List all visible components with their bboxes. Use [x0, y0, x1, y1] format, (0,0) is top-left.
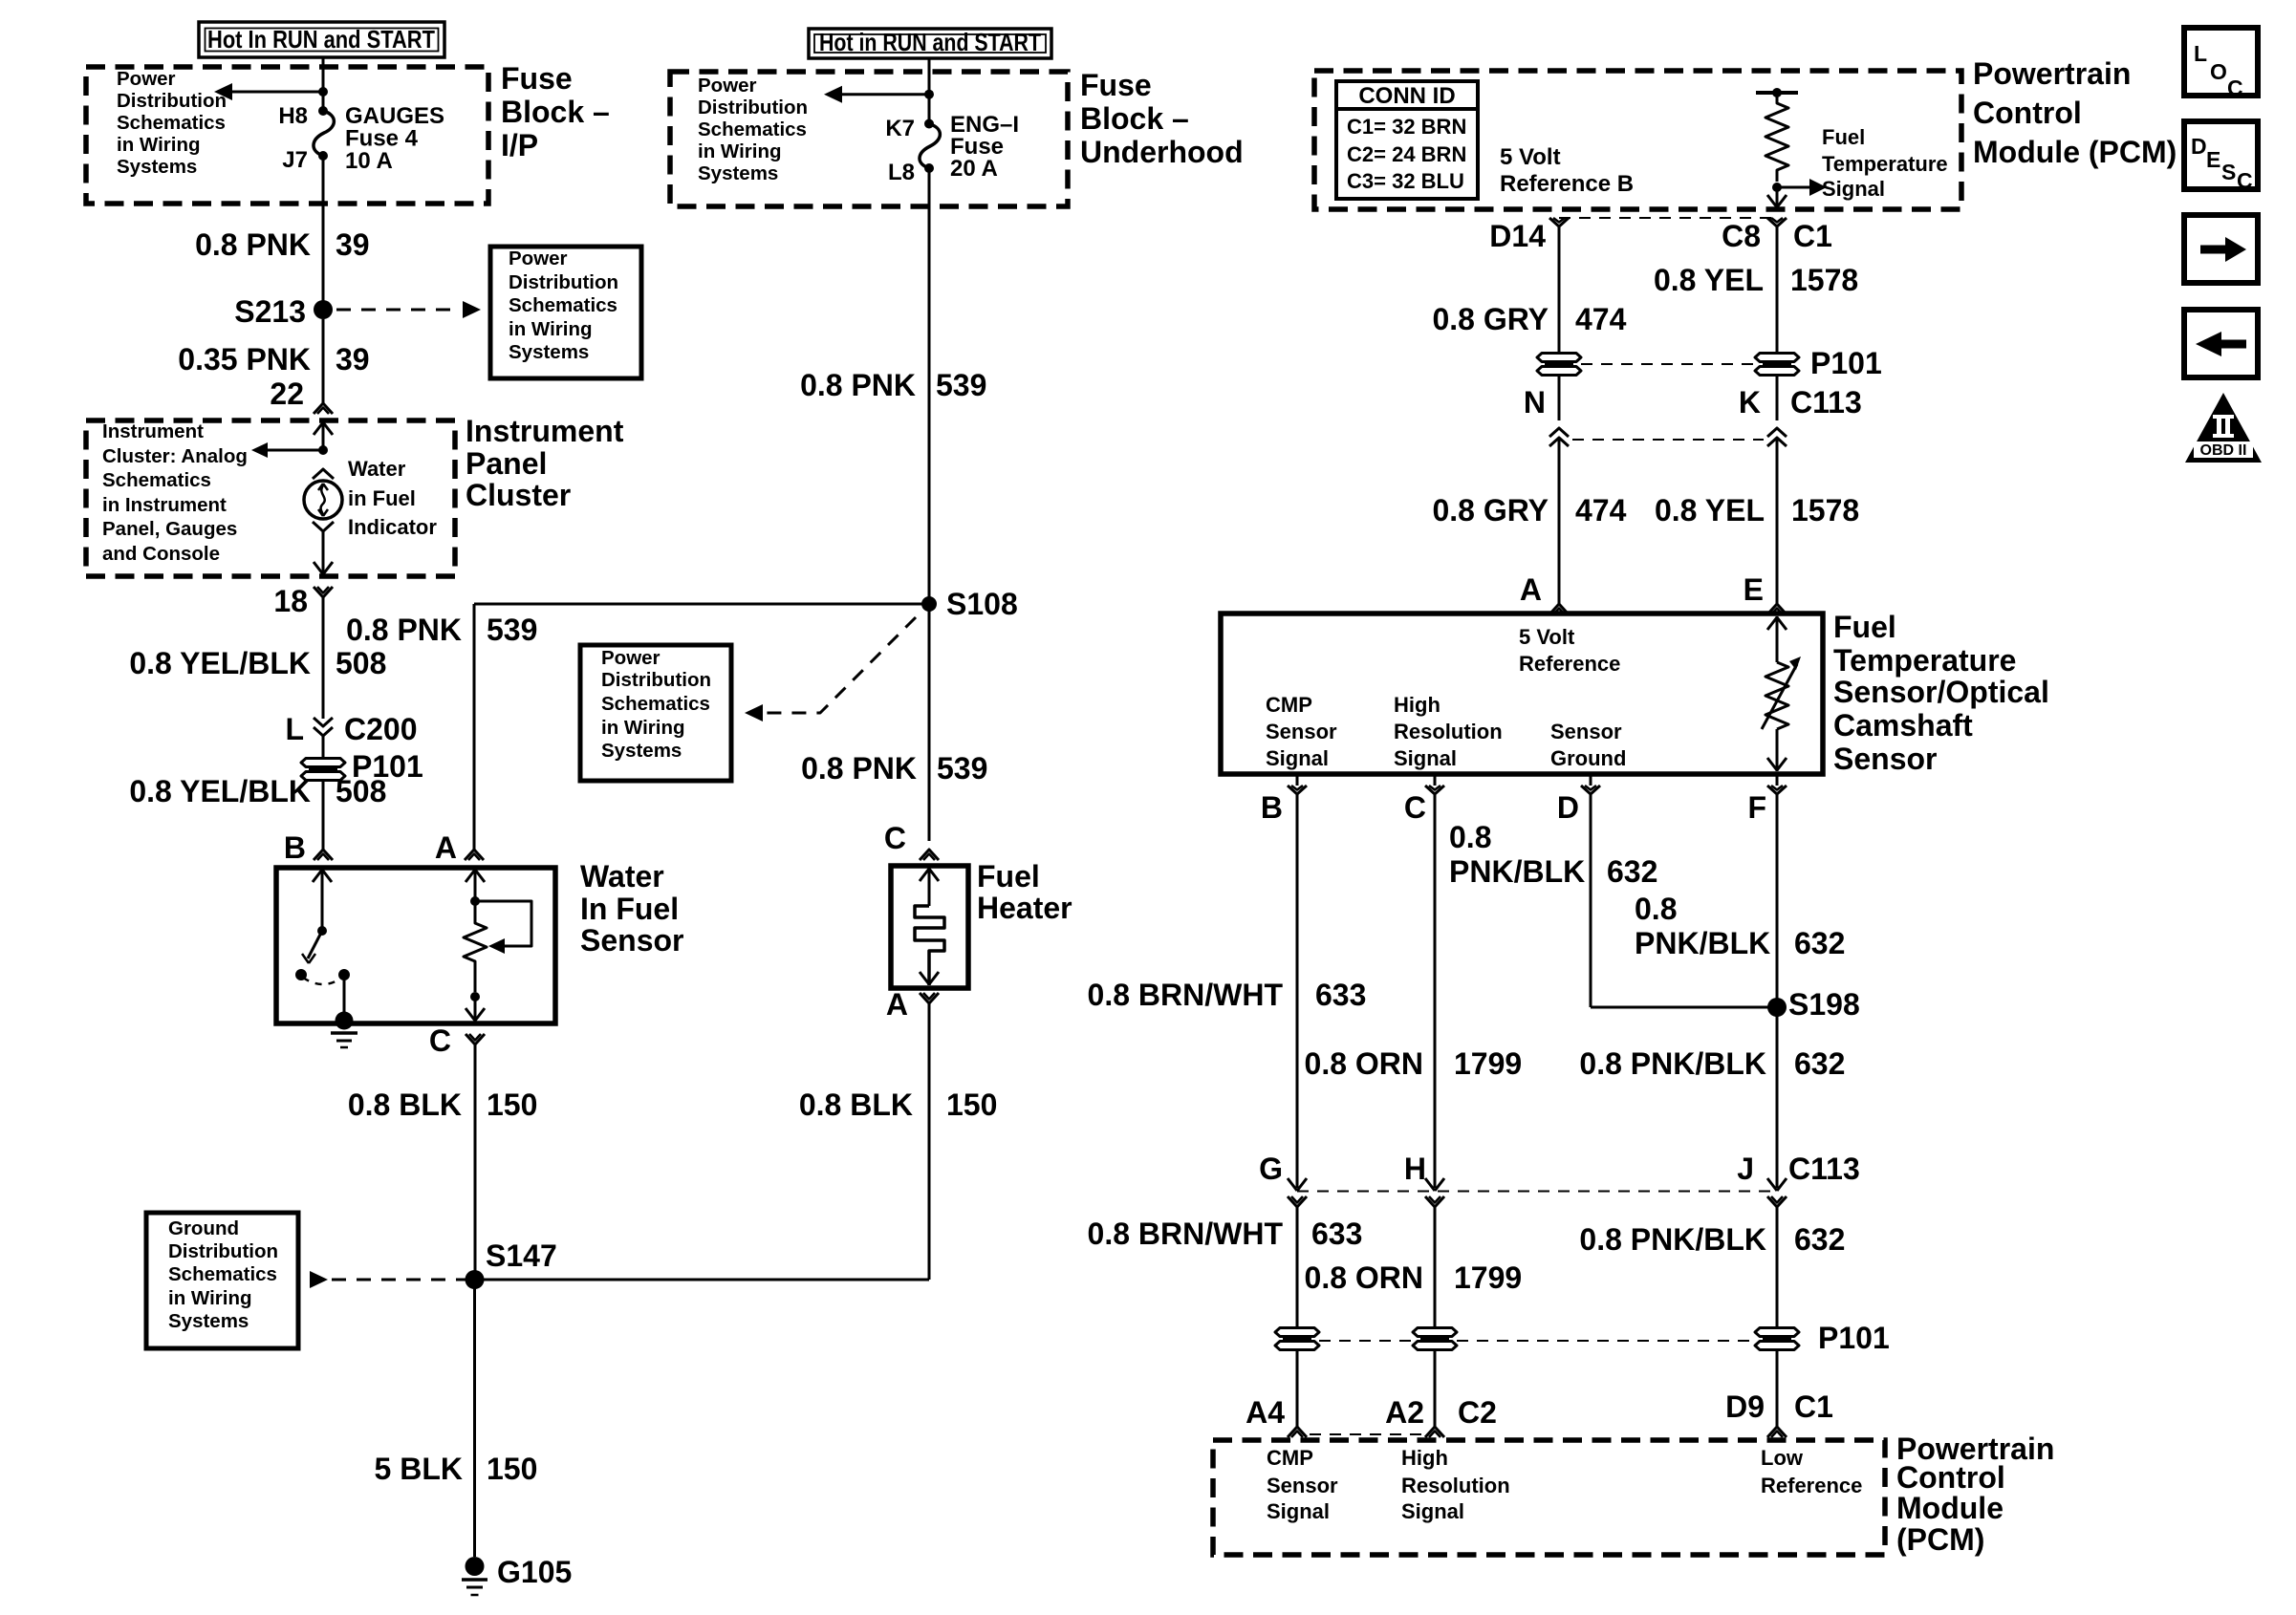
- connector pin B: [314, 850, 333, 860]
- wire F down to S198: [1776, 794, 1779, 1007]
- svg-text:Sensor: Sensor: [1267, 1474, 1338, 1497]
- svg-text:H8: H8: [278, 103, 308, 129]
- connector chevron pin 18: [314, 587, 333, 597]
- wire fuse to S213: [322, 156, 325, 310]
- ground symbol inside sensor: [336, 1012, 354, 1030]
- svg-text:Reference: Reference: [1519, 652, 1620, 676]
- svg-text:C1: C1: [1793, 219, 1832, 253]
- svg-text:and Console: and Console: [102, 543, 220, 565]
- wire into cluster w/ up arrow: [322, 420, 325, 450]
- connector D14/C8 chevrons + link: [1559, 217, 1777, 219]
- svg-text:Schematics: Schematics: [509, 294, 617, 316]
- svg-text:P101: P101: [1818, 1321, 1890, 1355]
- svg-text:K: K: [1739, 385, 1761, 420]
- svg-text:474: 474: [1575, 302, 1627, 336]
- wire into fuse block 2: [928, 58, 931, 123]
- svg-text:S198: S198: [1788, 987, 1860, 1022]
- svg-text:D: D: [1557, 790, 1579, 825]
- svg-text:OBD II: OBD II: [2200, 442, 2247, 459]
- CONN ID table: [1336, 81, 1478, 199]
- svg-text:0.8 YEL: 0.8 YEL: [1655, 493, 1765, 528]
- svg-text:(PCM): (PCM): [1896, 1522, 1984, 1557]
- svg-text:39: 39: [336, 227, 370, 262]
- svg-text:C1: C1: [1794, 1389, 1833, 1424]
- ref box 3: Power Distribution Schematics: [580, 645, 731, 781]
- connector chevron pin 22: [314, 403, 333, 414]
- svg-text:0.8 ORN: 0.8 ORN: [1305, 1046, 1423, 1081]
- svg-text:D9: D9: [1725, 1389, 1765, 1424]
- svg-text:Power: Power: [601, 647, 661, 669]
- svg-text:Fuse: Fuse: [1080, 68, 1152, 102]
- svg-text:C1= 32 BRN: C1= 32 BRN: [1347, 115, 1466, 139]
- svg-text:Schematics: Schematics: [117, 112, 226, 134]
- svg-text:632: 632: [1794, 1046, 1845, 1081]
- svg-text:C113: C113: [1790, 385, 1862, 420]
- switch inside sensor: [321, 868, 324, 931]
- svg-text:C2: C2: [1458, 1395, 1497, 1430]
- svg-text:Water: Water: [348, 457, 406, 481]
- svg-text:D14: D14: [1489, 219, 1546, 253]
- wire fuse2 to S108: [928, 168, 931, 604]
- svg-text:High: High: [1401, 1446, 1448, 1470]
- svg-text:539: 539: [936, 368, 986, 402]
- icon arrow right: [2184, 215, 2258, 283]
- svg-text:A2: A2: [1385, 1395, 1424, 1430]
- heater element: [928, 866, 931, 906]
- connector C113 N/K: [1558, 376, 1561, 420]
- fuel temperature signal arrow: [1777, 186, 1809, 189]
- svg-text:Power: Power: [117, 68, 176, 90]
- svg-text:C113: C113: [1788, 1152, 1860, 1186]
- grommets P101 bottom row: [1275, 1328, 1319, 1337]
- svg-text:Fuel: Fuel: [1833, 610, 1896, 644]
- svg-text:G105: G105: [497, 1555, 572, 1589]
- svg-text:5 Volt: 5 Volt: [1500, 144, 1561, 170]
- svg-text:Water: Water: [580, 859, 664, 894]
- Water In Fuel Sensor box: [276, 868, 555, 1023]
- svg-text:150: 150: [487, 1087, 537, 1122]
- second wire: S108 branch down to pin A: [473, 604, 476, 850]
- Fuel Heater box: [891, 866, 968, 988]
- svg-text:Power: Power: [698, 75, 757, 97]
- svg-text:B: B: [1261, 790, 1283, 825]
- svg-text:Heater: Heater: [977, 891, 1072, 925]
- svg-text:474: 474: [1575, 493, 1627, 528]
- svg-text:J: J: [1737, 1152, 1754, 1186]
- svg-text:H: H: [1404, 1152, 1426, 1186]
- svg-text:E: E: [1744, 572, 1764, 607]
- svg-text:Control: Control: [1973, 96, 2082, 130]
- svg-text:Sensor: Sensor: [1550, 720, 1622, 743]
- svg-text:150: 150: [487, 1452, 537, 1486]
- svg-text:0.8 BLK: 0.8 BLK: [348, 1087, 462, 1122]
- svg-text:Fuse: Fuse: [501, 61, 573, 96]
- Fuel Temperature Sensor / Optical Camshaft Sensor box: [1221, 614, 1823, 774]
- svg-text:C: C: [429, 1023, 451, 1058]
- svg-text:0.8 BRN/WHT: 0.8 BRN/WHT: [1088, 1217, 1284, 1251]
- svg-text:0.8 BLK: 0.8 BLK: [799, 1087, 913, 1122]
- fuel temp pullup resistor in PCM: [1756, 91, 1798, 95]
- fuse ENG-I 20A: [924, 119, 934, 129]
- svg-text:Underhood: Underhood: [1080, 135, 1244, 169]
- svg-text:1578: 1578: [1790, 263, 1858, 297]
- connector pin C: [466, 1034, 485, 1044]
- svg-text:A: A: [886, 987, 908, 1022]
- svg-text:Block –: Block –: [501, 95, 610, 129]
- svg-text:C: C: [1404, 790, 1426, 825]
- svg-text:PNK/BLK: PNK/BLK: [1449, 854, 1585, 889]
- svg-text:Sensor: Sensor: [580, 923, 683, 958]
- svg-text:508: 508: [336, 646, 386, 680]
- ground ref box: [146, 1213, 298, 1348]
- wire S213 to instrument cluster: [322, 319, 325, 403]
- svg-text:539: 539: [487, 613, 537, 647]
- svg-text:0.8 PNK: 0.8 PNK: [346, 613, 462, 647]
- svg-text:S213: S213: [234, 294, 306, 329]
- splice S213: [314, 300, 333, 319]
- connector pin A: [465, 850, 484, 860]
- svg-text:L: L: [2194, 41, 2207, 66]
- svg-text:0.8 YEL: 0.8 YEL: [1654, 263, 1764, 297]
- wire to cluster bottom w/ down arrow: [322, 531, 325, 575]
- svg-text:Schematics: Schematics: [102, 469, 211, 491]
- ref box: Power Distribution Schematics in Wiring Systems: [490, 247, 641, 378]
- svg-text:Module: Module: [1896, 1491, 2004, 1525]
- wire to C200: [322, 597, 325, 719]
- wire S147 to G105: [473, 1280, 476, 1557]
- wire D down to S198: [1590, 794, 1592, 1007]
- svg-text:J7: J7: [282, 147, 308, 173]
- dashed arrow S213 to ref box: [336, 309, 461, 312]
- svg-text:0.8 PNK: 0.8 PNK: [195, 227, 311, 262]
- svg-text:C: C: [2227, 75, 2243, 100]
- PCM dashed box: [1314, 71, 1961, 209]
- power feed box 2 "Hot in RUN and START": [809, 29, 1051, 58]
- wire C down to H: [1434, 794, 1437, 1188]
- svg-text:C2= 24 BRN: C2= 24 BRN: [1347, 142, 1466, 166]
- svg-text:Hot In RUN and START: Hot In RUN and START: [207, 25, 435, 54]
- svg-text:5 Volt: 5 Volt: [1519, 625, 1575, 649]
- svg-text:Systems: Systems: [117, 156, 197, 178]
- dashed arrow S108 to ref box 3: [761, 617, 916, 713]
- svg-text:CONN ID: CONN ID: [1358, 83, 1455, 109]
- splice S108: [921, 596, 937, 612]
- junction dot + left arrow (power distribution): [318, 87, 328, 97]
- svg-text:Resolution: Resolution: [1401, 1474, 1510, 1497]
- svg-text:539: 539: [937, 751, 987, 786]
- svg-text:S147: S147: [486, 1238, 557, 1273]
- wire D14 down: [1558, 226, 1561, 354]
- svg-text:0.8 PNK/BLK: 0.8 PNK/BLK: [1579, 1046, 1766, 1081]
- svg-text:Signal: Signal: [1266, 746, 1329, 770]
- svg-text:22: 22: [270, 377, 304, 411]
- icon DESC: [2184, 121, 2258, 189]
- svg-text:Signal: Signal: [1822, 177, 1885, 201]
- svg-text:in Fuel: in Fuel: [348, 486, 416, 510]
- svg-text:Sensor: Sensor: [1833, 742, 1937, 776]
- svg-text:633: 633: [1311, 1217, 1362, 1251]
- svg-text:0.8 YEL/BLK: 0.8 YEL/BLK: [129, 774, 311, 808]
- svg-text:In Fuel: In Fuel: [580, 892, 679, 926]
- wire P101 to sensor: [322, 781, 325, 850]
- svg-text:A: A: [435, 830, 457, 865]
- splice S198: [1767, 998, 1787, 1017]
- optical cam variable resistor: [1776, 616, 1779, 662]
- svg-text:Cluster: Cluster: [466, 478, 571, 512]
- dashed arrow ref box to S147: [310, 1271, 328, 1288]
- svg-text:Distribution: Distribution: [509, 271, 618, 293]
- splice S147: [466, 1270, 485, 1289]
- icon OBD II triangle: [2185, 393, 2262, 463]
- power feed box "Hot In RUN and START": [199, 22, 444, 57]
- svg-text:Schematics: Schematics: [168, 1263, 277, 1285]
- water in fuel indicator gauge: [313, 469, 334, 479]
- grommets P101 pair + dashed link: [1537, 354, 1581, 362]
- svg-text:0.8 PNK: 0.8 PNK: [801, 751, 917, 786]
- connector C200 pin L: [314, 718, 333, 726]
- svg-text:508: 508: [336, 774, 386, 808]
- svg-text:I/P: I/P: [501, 128, 538, 162]
- svg-text:Ground: Ground: [1550, 746, 1626, 770]
- wires down to sensor A/E: [1558, 438, 1561, 604]
- connector pin A heater: [920, 993, 939, 1003]
- fuse block underhood dashed box: [670, 72, 1068, 206]
- svg-text:Sensor: Sensor: [1266, 720, 1337, 743]
- svg-text:Ground: Ground: [168, 1217, 239, 1239]
- instrument panel cluster dashed box: [86, 420, 455, 576]
- svg-text:Powertrain: Powertrain: [1973, 56, 2131, 91]
- svg-text:150: 150: [946, 1087, 997, 1122]
- svg-text:Signal: Signal: [1267, 1499, 1330, 1523]
- svg-text:0.8: 0.8: [1635, 892, 1677, 926]
- svg-text:Reference B: Reference B: [1500, 171, 1634, 197]
- junction dot + left arrow 2: [924, 90, 934, 99]
- svg-text:in Wiring: in Wiring: [168, 1287, 252, 1309]
- svg-text:Hot in RUN and START: Hot in RUN and START: [819, 28, 1041, 56]
- svg-text:632: 632: [1794, 926, 1845, 960]
- svg-text:C3= 32 BLU: C3= 32 BLU: [1347, 169, 1464, 193]
- svg-text:C200: C200: [344, 712, 418, 746]
- horizontal wire S108 to branch A: [474, 603, 929, 606]
- svg-text:D: D: [2191, 134, 2207, 159]
- svg-text:in Instrument: in Instrument: [102, 494, 227, 516]
- svg-text:10 A: 10 A: [345, 148, 393, 174]
- svg-text:K7: K7: [885, 116, 915, 141]
- wire to PCM edge w/ down arrow: [1776, 187, 1779, 208]
- svg-text:in Wiring: in Wiring: [117, 134, 201, 156]
- svg-text:in Wiring: in Wiring: [601, 717, 685, 739]
- wire C to S147: [474, 1044, 477, 1280]
- wire from hot box into fuse block: [322, 57, 325, 111]
- svg-text:L8: L8: [888, 160, 915, 185]
- svg-text:Fuel: Fuel: [1822, 125, 1865, 149]
- svg-text:Resolution: Resolution: [1394, 720, 1503, 743]
- svg-text:Systems: Systems: [601, 740, 682, 762]
- svg-text:0.8: 0.8: [1449, 820, 1491, 854]
- svg-text:Signal: Signal: [1401, 1499, 1464, 1523]
- svg-text:Fuel: Fuel: [977, 859, 1040, 894]
- svg-text:C: C: [2237, 168, 2253, 193]
- svg-text:C8: C8: [1722, 219, 1761, 253]
- svg-text:N: N: [1524, 385, 1546, 420]
- svg-text:39: 39: [336, 342, 370, 377]
- svg-text:PNK/BLK: PNK/BLK: [1635, 926, 1770, 960]
- svg-text:632: 632: [1794, 1222, 1845, 1257]
- svg-text:P101: P101: [1810, 346, 1882, 380]
- svg-text:0.8 GRY: 0.8 GRY: [1432, 493, 1549, 528]
- svg-text:Schematics: Schematics: [698, 118, 807, 140]
- svg-text:CMP: CMP: [1267, 1446, 1313, 1470]
- icon arrow left: [2184, 310, 2258, 377]
- svg-text:Distribution: Distribution: [601, 669, 711, 691]
- svg-text:0.8 YEL/BLK: 0.8 YEL/BLK: [129, 646, 311, 680]
- wire S108 to fuel heater: [928, 604, 931, 841]
- svg-text:Power: Power: [509, 248, 568, 269]
- sensor pins B C D F: [1296, 774, 1299, 786]
- svg-text:L: L: [285, 712, 304, 746]
- svg-text:Distribution: Distribution: [168, 1240, 278, 1262]
- svg-text:F: F: [1747, 790, 1766, 825]
- svg-text:Systems: Systems: [509, 341, 589, 363]
- svg-text:Camshaft: Camshaft: [1833, 708, 1973, 743]
- svg-text:Distribution: Distribution: [698, 97, 808, 118]
- PCM2 dashed box: [1213, 1440, 1885, 1555]
- svg-text:Low: Low: [1761, 1446, 1804, 1470]
- svg-text:O: O: [2210, 59, 2227, 84]
- wire B down to G: [1296, 794, 1299, 1188]
- svg-text:1799: 1799: [1454, 1046, 1522, 1081]
- svg-text:in Wiring: in Wiring: [509, 318, 593, 340]
- ground G105: [466, 1557, 485, 1576]
- grommet P101 (left): [301, 759, 345, 767]
- svg-text:A4: A4: [1245, 1395, 1285, 1430]
- svg-text:Instrument: Instrument: [102, 420, 204, 442]
- svg-text:Block –: Block –: [1080, 101, 1189, 136]
- svg-text:Sensor/Optical: Sensor/Optical: [1833, 675, 2049, 709]
- svg-text:E: E: [2206, 147, 2220, 172]
- wire C8 down: [1776, 226, 1779, 354]
- svg-text:0.35 PNK: 0.35 PNK: [178, 342, 311, 377]
- svg-text:Indicator: Indicator: [348, 515, 437, 539]
- svg-text:Instrument: Instrument: [466, 414, 624, 448]
- svg-text:B: B: [284, 830, 306, 865]
- svg-text:1578: 1578: [1791, 493, 1859, 528]
- svg-text:0.8 PNK: 0.8 PNK: [800, 368, 916, 402]
- svg-text:0.8 ORN: 0.8 ORN: [1305, 1260, 1423, 1295]
- svg-text:Systems: Systems: [698, 162, 778, 184]
- wires to P101 grommets: [1296, 1207, 1299, 1328]
- svg-text:Temperature: Temperature: [1833, 643, 2016, 678]
- svg-text:Temperature: Temperature: [1822, 152, 1948, 176]
- sense resistor inside sensor: [474, 868, 477, 901]
- svg-text:Distribution: Distribution: [117, 90, 227, 112]
- svg-text:633: 633: [1315, 978, 1366, 1012]
- svg-text:in Wiring: in Wiring: [698, 140, 782, 162]
- svg-text:0.8 GRY: 0.8 GRY: [1432, 302, 1549, 336]
- svg-text:632: 632: [1607, 854, 1657, 889]
- svg-text:C: C: [884, 821, 906, 855]
- svg-text:18: 18: [273, 584, 308, 618]
- svg-text:20 A: 20 A: [950, 156, 998, 182]
- wires to PCM2 pins: [1296, 1350, 1299, 1427]
- svg-text:Control: Control: [1896, 1460, 2005, 1495]
- svg-text:A: A: [1520, 572, 1542, 607]
- svg-text:Reference: Reference: [1761, 1474, 1862, 1497]
- svg-text:0.8 PNK/BLK: 0.8 PNK/BLK: [1579, 1222, 1766, 1257]
- svg-text:S108: S108: [946, 587, 1018, 621]
- svg-text:0.8 BRN/WHT: 0.8 BRN/WHT: [1088, 978, 1284, 1012]
- wire heater A down to S147 run: [928, 1003, 931, 1280]
- svg-text:Schematics: Schematics: [601, 693, 710, 715]
- svg-text:High: High: [1394, 693, 1440, 717]
- svg-text:Cluster: Analog: Cluster: Analog: [102, 445, 248, 467]
- svg-text:Panel: Panel: [466, 446, 547, 481]
- svg-text:Signal: Signal: [1394, 746, 1457, 770]
- svg-text:Panel, Gauges: Panel, Gauges: [102, 518, 237, 540]
- svg-text:Systems: Systems: [168, 1310, 249, 1332]
- svg-text:G: G: [1259, 1152, 1283, 1186]
- fuse GAUGES Fuse 4 10A: [318, 106, 328, 116]
- fuse block I/P dashed box: [86, 67, 488, 204]
- svg-text:CMP: CMP: [1266, 693, 1312, 717]
- svg-text:1799: 1799: [1454, 1260, 1522, 1295]
- junction + left arrow inside cluster: [318, 445, 328, 455]
- svg-text:S: S: [2221, 160, 2236, 184]
- svg-text:Module (PCM): Module (PCM): [1973, 135, 2177, 169]
- svg-text:5 BLK: 5 BLK: [375, 1452, 463, 1486]
- icon LOC: [2184, 28, 2258, 96]
